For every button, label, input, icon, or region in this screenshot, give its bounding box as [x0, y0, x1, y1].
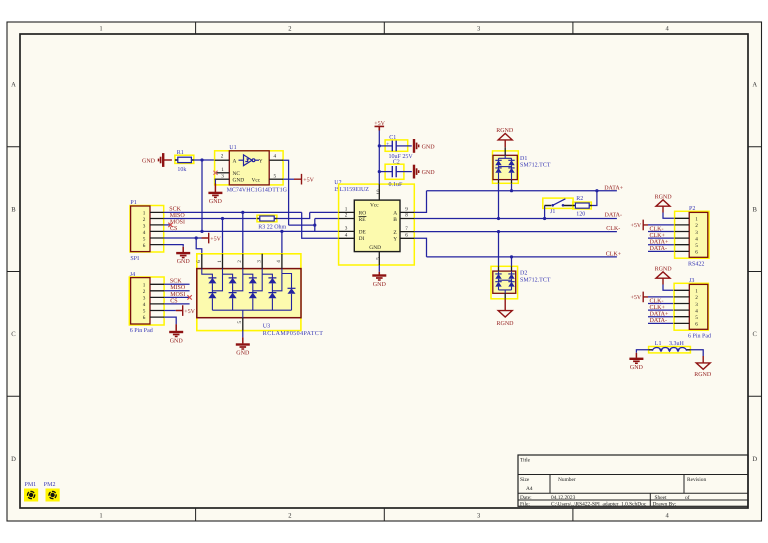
connector P2: [675, 206, 709, 267]
svg-text:GND: GND: [422, 170, 436, 176]
svg-text:File:: File:: [520, 501, 530, 507]
P1 pin numbers: [143, 210, 146, 249]
wire CLK- to P2 pin3: [648, 231, 675, 233]
svg-text:RE: RE: [359, 217, 367, 223]
wire CLK+ to P2 pin4: [648, 237, 675, 239]
wire DATA- to P2 pin6: [648, 250, 675, 252]
svg-text:A: A: [752, 82, 757, 89]
wire J4 GND: [164, 317, 176, 324]
wire RO to U2: [310, 211, 339, 213]
wire CLK+ line: [427, 256, 617, 258]
svg-text:D2: D2: [520, 271, 527, 277]
wire P1 GND: [164, 245, 184, 247]
svg-text:9: 9: [405, 207, 408, 213]
junction SCK to U3: [241, 211, 244, 214]
ground GND right of C1: [414, 139, 435, 153]
wire P1 +5V: [164, 237, 202, 239]
svg-text:+5V: +5V: [210, 236, 221, 242]
svg-text:MC74VHC1G14DTT1G: MC74VHC1G14DTT1G: [227, 188, 288, 194]
wire RE-DE tie vertical: [314, 219, 316, 232]
svg-text:4: 4: [143, 230, 146, 236]
wire DATA+ to P2 pin5: [648, 244, 675, 246]
diode array U3: [197, 254, 323, 337]
svg-text:5: 5: [274, 174, 277, 180]
svg-text:CLK+: CLK+: [606, 252, 622, 258]
junction on +5V branch: [195, 236, 198, 239]
inductor L1: [649, 341, 691, 353]
wire CLK- to J3 pin3: [648, 303, 674, 305]
wire +5V rail down to U2: [378, 131, 380, 185]
wire D2 left pin to CLK-: [498, 232, 500, 267]
svg-text:4: 4: [695, 236, 698, 242]
svg-text:GND: GND: [170, 338, 184, 344]
svg-text:GND: GND: [630, 365, 644, 371]
wire CLK+ to J3 pin4: [648, 309, 674, 311]
svg-text:Vcc: Vcc: [370, 202, 379, 208]
svg-text:2: 2: [237, 260, 243, 263]
svg-text:GND: GND: [209, 199, 223, 205]
ground GND under U3: [236, 345, 250, 357]
svg-text:5: 5: [376, 257, 382, 260]
power RGND below D2: [497, 299, 515, 327]
wire MISO from P1 to R3: [164, 218, 258, 220]
svg-text:GND: GND: [422, 144, 436, 150]
capacitor C1: [379, 135, 413, 160]
transceiver U2: [334, 180, 414, 265]
resistor R1: [175, 150, 194, 173]
svg-text:8: 8: [405, 213, 408, 219]
junction R1/U1/CS node: [200, 158, 203, 161]
svg-text:4: 4: [276, 260, 282, 263]
J3 pins: [674, 290, 689, 323]
junction RE/DE tie: [313, 224, 316, 227]
svg-text:R2: R2: [576, 196, 583, 202]
svg-text:Sheet: Sheet: [655, 495, 667, 501]
svg-text:3: 3: [143, 295, 146, 301]
wire J1 to DATA- tap: [544, 206, 546, 219]
connector J3: [674, 278, 711, 339]
power +5V at P1: [202, 233, 209, 244]
svg-text:10k: 10k: [177, 166, 186, 173]
svg-text:RCLAMP0504PATCT: RCLAMP0504PATCT: [263, 331, 323, 337]
svg-text:DATA+: DATA+: [604, 185, 624, 191]
svg-text:+5V: +5V: [184, 309, 195, 315]
svg-text:SCK: SCK: [169, 207, 181, 213]
resistor R3: [257, 215, 287, 230]
svg-text:U3: U3: [263, 324, 270, 330]
junction J1 DATA-: [543, 217, 546, 220]
svg-text:3: 3: [221, 174, 224, 180]
svg-text:PM1: PM1: [25, 482, 37, 488]
svg-text:B: B: [393, 217, 397, 223]
U1 pin 1: [215, 167, 230, 173]
power +5V at U1: [294, 174, 315, 185]
power RGND above D1: [496, 128, 514, 147]
J3 pin numbers: [695, 289, 698, 328]
svg-text:D: D: [11, 456, 16, 463]
ground GND under U1: [208, 193, 222, 205]
svg-text:4: 4: [695, 308, 698, 314]
op-amp/inverter U1: [215, 145, 288, 193]
no-ERC marker on U1 pin 1: [213, 171, 217, 175]
P2 pins: [675, 218, 690, 251]
svg-text:Number: Number: [558, 477, 576, 483]
svg-text:1: 1: [99, 26, 102, 33]
wire MISO R3 to RO step: [277, 212, 310, 218]
power +5V at J4: [176, 305, 183, 316]
wire L1 to GND: [636, 350, 648, 353]
svg-text:J1: J1: [550, 209, 555, 215]
svg-text:CLK-: CLK-: [606, 226, 620, 232]
svg-text:C:\Users\..\RS422-SPI_adapter_: C:\Users\..\RS422-SPI_adapter_1.0.SchDoc: [551, 501, 647, 507]
U2 pin names: [359, 202, 398, 251]
U1 pin 2: [215, 153, 230, 160]
fiducial PM1: [24, 482, 38, 502]
wire DATA- to J3 pin6: [648, 322, 674, 324]
wire +5V to J3 pin2: [648, 296, 674, 298]
svg-text:GND: GND: [236, 350, 250, 356]
wire CS drop to U3: [281, 231, 283, 253]
svg-text:GND: GND: [369, 245, 381, 251]
U2 pin 5 GND: [376, 252, 382, 265]
svg-text:SM712.TCT: SM712.TCT: [520, 278, 551, 284]
junction CS to U3: [280, 230, 283, 233]
svg-text:ISL3159EIUZ: ISL3159EIUZ: [334, 187, 369, 193]
junction D2 CLK+: [510, 255, 513, 258]
wire U3 GND: [242, 331, 244, 338]
ground GND right of C2: [414, 165, 435, 179]
J4 pins: [150, 284, 164, 317]
svg-text:6: 6: [143, 315, 146, 321]
svg-text:2: 2: [288, 513, 291, 520]
no-ERC marker on J4 MOSI: [187, 295, 191, 299]
ground GND under U2: [372, 276, 386, 288]
svg-text:A: A: [393, 211, 397, 217]
wire U1 Vcc to +5V: [283, 178, 294, 180]
svg-text:Z: Z: [393, 230, 396, 236]
svg-text:SPI: SPI: [130, 256, 139, 262]
capacitor C2: [379, 159, 412, 188]
U1 pin 4: [269, 153, 283, 160]
resistor R2: [572, 196, 592, 218]
junction C2 tap: [378, 170, 381, 173]
svg-text:R3 22 Ohm: R3 22 Ohm: [258, 224, 286, 231]
power RGND above P2: [655, 195, 673, 213]
svg-text:NC: NC: [233, 171, 241, 177]
power RGND above J3: [655, 267, 673, 285]
svg-text:1: 1: [345, 207, 348, 213]
wire SCK from P1: [164, 211, 302, 213]
power RGND at L1: [694, 356, 712, 378]
svg-text:+5V: +5V: [303, 178, 314, 184]
wire R2 to DATA+ tap: [592, 191, 597, 206]
junction CS at vertical: [200, 230, 203, 233]
wire D1 left pin to DATA-: [498, 183, 500, 218]
wire J4 stubs: [164, 284, 190, 304]
svg-text:3: 3: [695, 302, 698, 308]
svg-text:5: 5: [695, 315, 698, 321]
wire U2 A to DATA+: [414, 191, 426, 213]
power +5V at J3: [630, 292, 648, 303]
svg-text:3: 3: [695, 230, 698, 236]
svg-text:A4: A4: [526, 486, 533, 492]
svg-text:10: 10: [376, 189, 382, 195]
U2 right pins 9 8 7 6: [400, 207, 414, 239]
svg-text:+5V: +5V: [630, 223, 641, 229]
wire CS vertical to U1 input node: [201, 160, 203, 231]
svg-text:3: 3: [257, 260, 263, 263]
power +5V at P2: [630, 220, 648, 231]
U2 pin 10 Vcc: [376, 184, 382, 200]
svg-text:A: A: [11, 82, 16, 89]
junction R2 DATA+: [595, 189, 598, 192]
wire U1 GND pin3: [214, 179, 216, 183]
junction D1 DATA+: [510, 189, 513, 192]
svg-text:4: 4: [274, 153, 277, 159]
wire +5V to P2 pin2: [648, 224, 675, 226]
svg-text:1: 1: [143, 282, 146, 288]
svg-text:RS422: RS422: [688, 262, 704, 268]
svg-text:C: C: [11, 331, 16, 338]
U3 top pins: [196, 254, 282, 269]
svg-text:3: 3: [345, 226, 348, 232]
svg-text:2: 2: [143, 289, 146, 295]
svg-text:1: 1: [143, 210, 146, 216]
svg-text:2: 2: [695, 295, 698, 301]
svg-text:1: 1: [217, 260, 223, 263]
U3 bottom pin 5: [237, 318, 243, 331]
wire D1 right pin to DATA+: [511, 183, 513, 190]
wire CS from P1 to U2 DE: [164, 230, 339, 232]
svg-text:DE: DE: [359, 230, 367, 236]
svg-text:RGND: RGND: [694, 372, 712, 378]
fiducial PM2: [44, 482, 60, 502]
svg-text:120: 120: [576, 211, 585, 217]
svg-text:1: 1: [695, 217, 698, 223]
svg-text:DATA-: DATA-: [605, 212, 623, 218]
wire MISO drop to U3: [222, 219, 224, 254]
svg-text:D1: D1: [520, 156, 527, 162]
svg-text:of: of: [685, 495, 690, 501]
wire DATA+ line: [427, 190, 617, 192]
svg-text:7: 7: [405, 226, 408, 232]
no-ERC marker on P1 MOSI: [168, 223, 172, 227]
U3 internal wiring: [202, 269, 292, 318]
switch J1: [543, 198, 573, 215]
wire L1 to RGND: [690, 350, 703, 356]
wire DATA+ to J3 pin5: [648, 316, 674, 318]
ground GND at J4: [169, 332, 183, 344]
wire U2 GND down: [378, 265, 380, 272]
wire +5V branch to U3: [196, 238, 202, 254]
wire RGND to P2 pin1: [663, 213, 675, 219]
U1 pin names: [233, 158, 263, 183]
svg-text:5: 5: [237, 321, 243, 324]
svg-text:5: 5: [143, 236, 146, 242]
svg-text:04.12.2023: 04.12.2023: [551, 495, 576, 501]
svg-text:Drawn By:: Drawn By:: [653, 501, 677, 507]
svg-text:GND: GND: [142, 159, 156, 165]
svg-text:+5V: +5V: [630, 295, 641, 301]
svg-text:6: 6: [695, 322, 698, 328]
svg-text:6: 6: [695, 250, 698, 256]
svg-text:6 Pin Pad: 6 Pin Pad: [130, 327, 153, 334]
wire J4 +5V: [164, 310, 176, 312]
wire U1Y horizontal to RE/DE: [289, 224, 315, 226]
svg-text:DI: DI: [359, 236, 365, 242]
svg-text:2: 2: [221, 153, 224, 159]
connector P1: [130, 200, 164, 262]
diode array D2: [491, 266, 551, 299]
svg-text:1: 1: [99, 513, 102, 520]
svg-text:+: +: [386, 142, 389, 147]
wire U1 output Y: [283, 160, 289, 225]
svg-text:2: 2: [288, 26, 291, 33]
wire RE to U2: [315, 218, 339, 220]
svg-text:Vcc: Vcc: [252, 178, 261, 184]
junction C1 tap: [378, 144, 381, 147]
svg-text:C: C: [752, 331, 757, 338]
svg-text:Revision: Revision: [687, 477, 706, 483]
svg-text:2: 2: [143, 217, 146, 223]
junction MISO to U3: [221, 217, 224, 220]
svg-text:B: B: [752, 206, 757, 213]
junction D2 CLK-: [497, 230, 500, 233]
svg-text:GND: GND: [233, 178, 245, 184]
ground GND at L1: [629, 359, 643, 371]
U1 pin 5: [269, 174, 283, 180]
svg-text:6: 6: [405, 233, 408, 239]
junction D1 DATA-: [497, 217, 500, 220]
svg-text:1: 1: [221, 167, 224, 173]
P2 pin numbers: [695, 217, 698, 256]
svg-text:GND: GND: [373, 282, 387, 288]
svg-text:Y: Y: [259, 158, 263, 164]
wire RGND to J3 pin1: [663, 285, 674, 291]
wire D2 right pin to CLK+: [511, 257, 513, 266]
connector J4: [129, 272, 164, 334]
svg-text:A: A: [233, 158, 237, 164]
power +5V top: [374, 121, 385, 130]
svg-text:6 Pin Pad: 6 Pin Pad: [688, 333, 711, 340]
svg-text:4: 4: [345, 233, 348, 239]
svg-text:4: 4: [143, 302, 146, 308]
wire DATA- line from U2 B: [414, 218, 617, 220]
svg-text:Size: Size: [520, 477, 530, 483]
svg-text:3: 3: [143, 223, 146, 229]
ground GND left of R1: [142, 153, 172, 167]
svg-text:PM2: PM2: [44, 482, 56, 488]
svg-text:6: 6: [196, 260, 202, 263]
svg-text:Y: Y: [393, 236, 397, 242]
title block: [518, 455, 748, 507]
ground GND at P1: [176, 253, 190, 265]
U1 inverter symbol: [239, 155, 260, 166]
svg-text:GND: GND: [177, 259, 191, 265]
svg-text:SM712.TCT: SM712.TCT: [520, 163, 551, 169]
U3 diodes: [208, 278, 295, 298]
svg-text:Date:: Date:: [520, 495, 532, 501]
diode array D1: [493, 147, 551, 183]
svg-text:RO: RO: [359, 211, 367, 217]
J4 pin numbers: [143, 282, 146, 321]
wire SCK corner to DI: [302, 212, 339, 238]
svg-text:Title: Title: [520, 458, 531, 464]
U2 left pins 1 2 3 4: [339, 207, 355, 239]
svg-text:0.1uF: 0.1uF: [389, 182, 404, 188]
wire SCK drop to U3: [242, 212, 244, 253]
svg-text:2: 2: [695, 223, 698, 229]
svg-text:5: 5: [143, 309, 146, 315]
U1 pin 3: [215, 174, 230, 180]
wire MOSI stub: [164, 224, 171, 226]
wire U2 Y to CLK+: [414, 238, 426, 257]
svg-text:5: 5: [695, 243, 698, 249]
svg-text:2: 2: [345, 213, 348, 219]
svg-text:1: 1: [695, 289, 698, 295]
wire R1 to U1 input: [194, 159, 215, 161]
svg-text:RGND: RGND: [497, 321, 515, 327]
wire CLK- line from U2 Z: [414, 231, 617, 233]
P1 pins: [150, 212, 164, 244]
svg-text:D: D: [752, 456, 757, 463]
svg-text:B: B: [11, 206, 16, 213]
svg-text:6: 6: [143, 243, 146, 249]
